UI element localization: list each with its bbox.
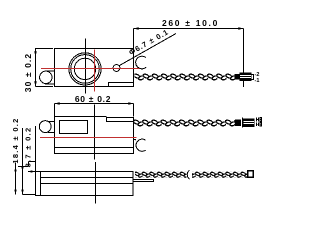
left dim vertical lines	[16, 126, 36, 195]
hole inner circle	[74, 58, 95, 79]
left tab boss circle	[40, 71, 52, 83]
inner plate lines row3	[41, 178, 134, 184]
60 dim line	[55, 103, 134, 105]
row2 wire labels	[257, 118, 262, 122]
inner vertical divider row3	[40, 172, 42, 196]
small right arrow at row3 top-left	[31, 170, 36, 172]
body outline row3	[36, 172, 134, 196]
260 left extension line	[133, 29, 135, 49]
window rect row2	[60, 121, 88, 134]
small circle (cable cross-section)	[113, 65, 120, 72]
row1 red horizontal centerline	[41, 68, 140, 70]
svg-text:260 ± 10.0: 260 ± 10.0	[162, 18, 219, 28]
row3 cable break mark	[187, 170, 189, 179]
row1 black vertical centerline	[85, 39, 87, 94]
30 dim extension stubs	[36, 49, 54, 87]
bottom plate row2	[55, 148, 134, 154]
row2 vertical centerline	[94, 105, 96, 160]
row2 red horizontal centerline	[40, 137, 137, 139]
wire stub right row3	[133, 180, 154, 182]
row1 crimp	[235, 74, 239, 79]
clip bend top-left row3	[29, 162, 36, 167]
left tab rails	[45, 71, 55, 84]
row2 crimp	[235, 120, 240, 125]
svg-text:60 ± 0.2: 60 ± 0.2	[75, 94, 111, 104]
right C ring row2	[134, 139, 146, 151]
60 dim extension stubs	[55, 104, 134, 117]
60 dim arrows	[55, 102, 134, 105]
row3 centerline	[95, 162, 97, 204]
bottom slot row1	[109, 83, 134, 87]
row3 end square connector	[248, 171, 254, 177]
hole outer circle	[69, 53, 101, 85]
body outline	[55, 49, 134, 87]
row2 connector clamp line	[242, 118, 244, 128]
260 right extension line	[243, 29, 245, 88]
30 dim arrows	[34, 48, 37, 87]
svg-text:30 ± 0.2: 30 ± 0.2	[23, 53, 33, 92]
top slot row2	[107, 118, 134, 122]
left dim stubs	[18, 167, 36, 195]
chain row2	[134, 119, 235, 127]
chain row1	[135, 73, 236, 81]
row1 connector block	[240, 73, 251, 81]
chain row3 part1	[135, 172, 186, 178]
left clip circle row2	[39, 121, 51, 133]
hole ring	[71, 55, 100, 84]
260 dim line	[134, 28, 244, 30]
chain row3 part2	[192, 172, 247, 178]
left clip rails row2	[48, 122, 55, 133]
left dim arrows	[14, 167, 23, 195]
body outline row2	[55, 117, 134, 148]
svg-text:-1: -1	[255, 78, 260, 84]
260 dim arrows	[134, 27, 244, 30]
row1 red vertical line	[94, 50, 96, 92]
30 dim line	[35, 48, 37, 87]
svg-text:3.7 ± 0.2: 3.7 ± 0.2	[24, 127, 33, 168]
svg-text:18.4 ± 0.2: 18.4 ± 0.2	[11, 117, 20, 163]
leader line	[119, 34, 176, 66]
right C ring row1	[136, 56, 146, 69]
row2 connector block	[244, 119, 255, 127]
